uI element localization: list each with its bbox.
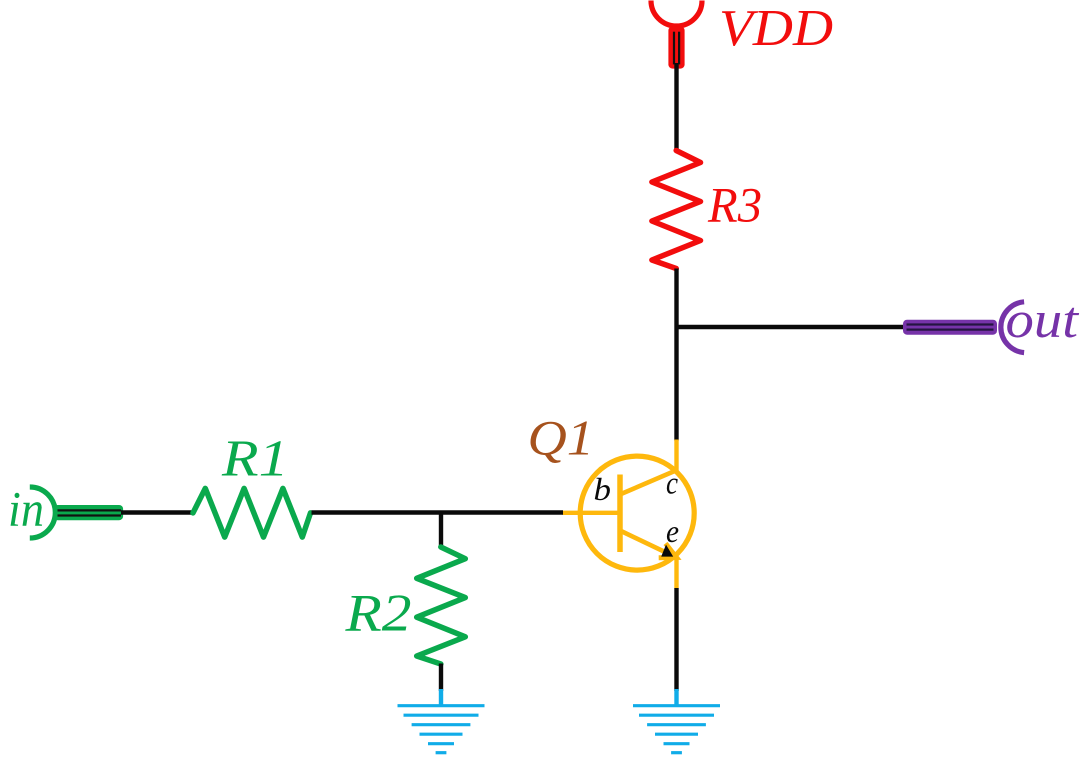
wire VDD to R3 bbox=[674, 63, 678, 151]
transistor Q1 bbox=[563, 440, 695, 589]
svg-text:out: out bbox=[1006, 292, 1080, 349]
svg-text:e: e bbox=[666, 513, 679, 549]
wire R1 to base node bbox=[312, 510, 564, 514]
wire node out to port out bbox=[677, 325, 907, 329]
wire R3 to collector through node out bbox=[674, 269, 678, 441]
svg-text:VDD: VDD bbox=[719, 0, 833, 57]
port out bbox=[903, 302, 1024, 353]
svg-text:b: b bbox=[594, 471, 612, 507]
ground at emitter bbox=[633, 689, 720, 753]
svg-text:R3: R3 bbox=[707, 177, 762, 233]
wire in to R1 bbox=[121, 510, 193, 514]
power port VDD bbox=[651, 1, 702, 69]
svg-text:c: c bbox=[666, 465, 678, 501]
resistor R1 bbox=[193, 488, 311, 537]
svg-text:Q1: Q1 bbox=[528, 410, 595, 466]
wire emitter to ground bbox=[674, 588, 678, 691]
resistor R3 bbox=[652, 151, 701, 269]
port in bbox=[30, 487, 123, 538]
svg-text:R2: R2 bbox=[344, 585, 411, 643]
resistor R2 bbox=[417, 547, 466, 664]
svg-text:R1: R1 bbox=[221, 431, 289, 488]
svg-text:in: in bbox=[8, 481, 44, 537]
wire base node to R2 bbox=[439, 513, 443, 549]
wire R2 to ground bbox=[439, 664, 443, 692]
ground at R2 bbox=[398, 689, 485, 753]
